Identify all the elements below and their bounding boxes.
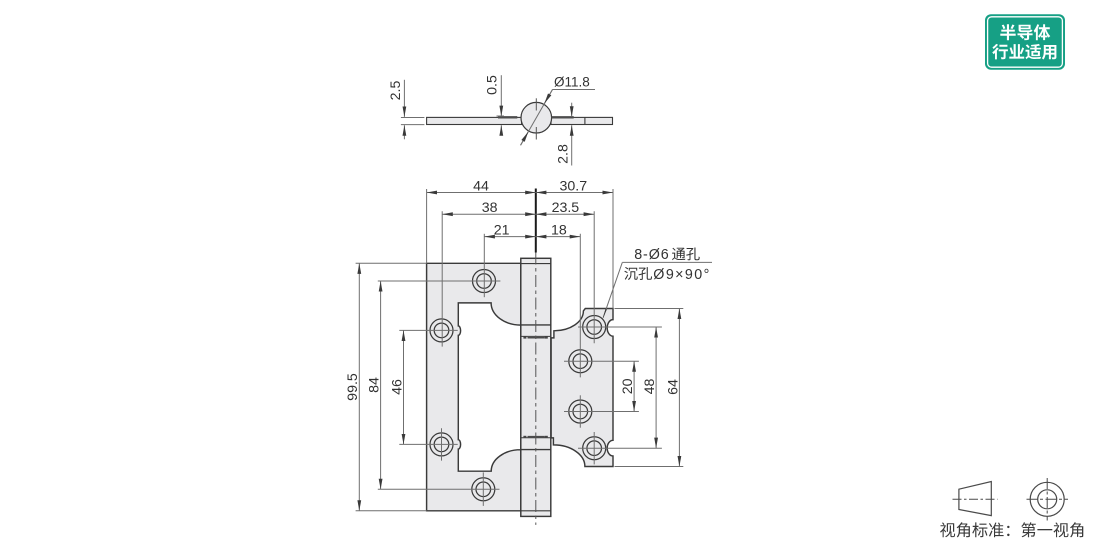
- barrel bottom cap joint line: [521, 510, 551, 512]
- hole H2 crosshair + extension to 46/38 dims: [399, 329, 457, 331]
- arrowhead at circle top-right: [544, 90, 552, 104]
- top view: circle vertical centerline: [535, 98, 537, 110]
- screw hole H8 bottom-right: countersink Ø9: [583, 437, 606, 460]
- extension line right leaf edge (30.7): [612, 189, 614, 309]
- barrel top cap joint line: [521, 263, 551, 265]
- svg-text:20: 20: [620, 378, 636, 394]
- dimension 38: [442, 213, 536, 215]
- projection symbol: frustum centerline: [953, 498, 998, 500]
- projection symbol: end view inner circle: [1038, 490, 1057, 509]
- barrel lower joint gap shading: [528, 436, 545, 438]
- dimension 84: [380, 281, 382, 489]
- dimension 48: [655, 327, 657, 448]
- projection symbol: end view outer circle: [1030, 482, 1064, 516]
- svg-text:18: 18: [551, 222, 567, 238]
- front view: right (male) leaf: [551, 309, 613, 467]
- barrel upper joint lower line: [522, 335, 551, 337]
- extension line right leaf top edge (64): [615, 308, 684, 310]
- hole H8 crosshair + extension to 48 dim: [578, 447, 662, 449]
- screw hole H6 mid-upper: through hole Ø6: [573, 354, 588, 369]
- dimension 23.5: [536, 213, 594, 215]
- screw hole H3 left-lower: through hole Ø6: [434, 437, 449, 452]
- badge: green rounded rectangle: [985, 14, 1065, 70]
- screw hole H2 left-upper: countersink Ø9: [430, 319, 453, 342]
- screw hole H2 left-upper: through hole Ø6: [434, 323, 449, 338]
- extension line left leaf edge (44): [426, 189, 428, 263]
- svg-text:46: 46: [389, 379, 405, 395]
- hole H6 crosshair + extension to 20/18 dims: [564, 360, 639, 362]
- svg-text:Ø11.8: Ø11.8: [554, 75, 590, 90]
- dimension 2.5: arrow lines: [403, 80, 405, 117]
- dimension 46: [403, 330, 405, 444]
- dimension 0.5: extension tick: [497, 115, 505, 117]
- top view: right leaf contact edge (thick): [552, 116, 574, 118]
- leader note line 2: 沉孔Ø9×90°: [624, 267, 652, 280]
- screw hole H7 mid-lower: countersink Ø9: [569, 400, 592, 423]
- screw hole H4 bottom-center: countersink Ø9: [472, 478, 495, 501]
- dimension 44: [427, 192, 536, 194]
- screw hole H4 bottom-center: through hole Ø6: [476, 482, 491, 497]
- barrel lower joint upper line: [522, 437, 551, 439]
- dimension 30.7: [536, 192, 613, 194]
- svg-text:48: 48: [642, 379, 658, 395]
- hole H3 crosshair + extension to 46 dim: [399, 443, 457, 445]
- barrel lower joint notches: [523, 436, 526, 438]
- barrel upper joint gap shading: [528, 337, 545, 339]
- barrel dash-dot centerline: [535, 253, 537, 525]
- dimension leader diameter line for Ø11.8: [521, 90, 553, 146]
- svg-text:2.8: 2.8: [556, 144, 572, 164]
- dimension 0.5: arrow lines: [500, 75, 502, 116]
- svg-text:64: 64: [665, 379, 681, 395]
- badge text line 2: 行业适用: [992, 44, 1056, 60]
- projection symbol: crosshair horizontal: [1027, 498, 1069, 500]
- screw hole H5 top-right: countersink Ø9: [583, 316, 606, 339]
- screw hole H1 top-center: countersink Ø9: [473, 270, 496, 293]
- screw hole H5 top-right: through hole Ø6: [587, 320, 602, 335]
- dimension 18: [536, 236, 581, 238]
- dimension 20: [633, 361, 635, 411]
- hole H5 crosshair + extension to 48/23.5 dims: [578, 326, 662, 328]
- svg-text:38: 38: [482, 200, 498, 216]
- dimension 99.5: [358, 263, 360, 511]
- top view: left leaf contact edge (thick): [498, 116, 517, 118]
- center extension line (thick): [535, 189, 537, 253]
- hole H7 crosshair + extension to 20 dim: [564, 411, 639, 413]
- badge text line 1: 半导体: [1000, 24, 1050, 40]
- top view: right leaf joint line: [584, 117, 586, 124]
- screw hole H1 top-center: through hole Ø6: [477, 274, 492, 289]
- top view: right leaf plate (side section): [551, 117, 613, 124]
- svg-text:2.5: 2.5: [388, 81, 404, 101]
- label Ø11.8 underline: [553, 89, 596, 91]
- svg-text:23.5: 23.5: [552, 200, 580, 216]
- top view: knuckle barrel circle: [521, 102, 552, 133]
- badge: white inner border: [988, 17, 1063, 67]
- svg-text:99.5: 99.5: [345, 373, 361, 401]
- top view: left leaf plate (side section): [427, 117, 522, 124]
- svg-text:Ø9×90°: Ø9×90°: [653, 267, 710, 283]
- extension line right leaf bottom edge (64): [615, 466, 684, 468]
- front view: barrel: [521, 258, 551, 516]
- leader note underline: [622, 261, 712, 263]
- svg-text:0.5: 0.5: [485, 75, 501, 95]
- barrel upper joint notches: [523, 336, 526, 338]
- leader line to hole H5: [603, 262, 622, 317]
- svg-text:44: 44: [473, 178, 489, 194]
- dimension 64: [678, 309, 680, 467]
- screw hole H7 mid-lower: through hole Ø6: [573, 404, 588, 419]
- screw hole H6 mid-upper: countersink Ø9: [569, 350, 592, 373]
- dimension 2.8: arrow lines: [571, 103, 573, 117]
- svg-text:30.7: 30.7: [559, 178, 587, 194]
- hole H1 crosshair + extension to 84/21 dims: [378, 280, 501, 282]
- arrowhead at circle lower-left: [521, 132, 529, 145]
- extension line leaf bottom edge (99.5): [356, 510, 427, 512]
- projection symbol: frustum side view: [959, 482, 991, 516]
- screw hole H3 left-lower: countersink Ø9: [430, 433, 453, 456]
- dimension 2.5: extension lines: [401, 117, 425, 119]
- svg-text:84: 84: [367, 377, 383, 393]
- svg-text:8-Ø6: 8-Ø6: [634, 247, 669, 263]
- dimension 21: [484, 236, 536, 238]
- caption: 视角标准：第一视角: [940, 522, 1083, 537]
- barrel upper knuckle joint line: [521, 324, 551, 326]
- extension line leaf top edge (99.5): [356, 262, 427, 264]
- barrel lower knuckle joint line: [521, 449, 551, 451]
- projection symbol: crosshair vertical: [1046, 478, 1048, 521]
- screw hole H8 bottom-right: through hole Ø6: [587, 441, 602, 456]
- front view: left (female) leaf with window cutout: [427, 263, 521, 511]
- svg-text:21: 21: [494, 222, 510, 238]
- hole H4 crosshair + extension to 84 dim: [378, 488, 500, 490]
